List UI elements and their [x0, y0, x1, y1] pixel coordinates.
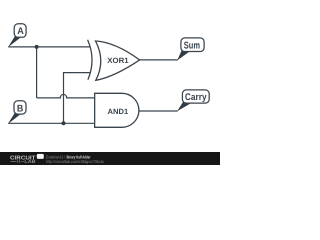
input flag A bubble — [14, 24, 26, 38]
input flag A tail — [8, 36, 21, 48]
output flag Carry bubble — [182, 90, 209, 103]
input flag B bubble — [14, 101, 26, 114]
output flag Sum tail — [177, 50, 190, 61]
svg-text:LAB: LAB — [24, 159, 36, 165]
footer logo schematic marks — [11, 160, 24, 163]
wire Carry: AND1 output to Carry flag — [139, 110, 178, 112]
svg-text:Carry: Carry — [185, 92, 207, 103]
wire B: input B to AND1 bottom input — [8, 122, 94, 124]
footer bar — [0, 152, 220, 165]
svg-text:http://circuitlab.com/c/8dgvs7: http://circuitlab.com/c/8dgvs728c4x — [46, 159, 105, 164]
junction dot on net A — [35, 45, 39, 49]
svg-text:B: B — [17, 103, 23, 114]
output flag Sum bubble — [181, 38, 204, 52]
wire A: input A to XOR1 top input — [8, 46, 90, 48]
wire A branch down and right to AND1 top input (with hop over B branch) — [37, 47, 95, 98]
svg-text:Sum: Sum — [184, 41, 200, 52]
footer logo white box — [37, 154, 44, 159]
junction dot on net B — [62, 121, 66, 125]
xor gate XOR1 extra input arc — [88, 40, 92, 80]
svg-text:A: A — [17, 26, 24, 37]
svg-text:XOR1: XOR1 — [107, 56, 129, 65]
xor gate XOR1 body — [96, 41, 140, 80]
wire Sum: XOR1 output to Sum flag — [140, 59, 178, 61]
and gate AND1 body — [95, 93, 139, 127]
input flag B tail — [8, 113, 21, 125]
wire B branch up and right to XOR1 bottom input — [64, 73, 91, 124]
svg-text:AND1: AND1 — [108, 107, 129, 116]
output flag Carry tail — [177, 101, 191, 111]
